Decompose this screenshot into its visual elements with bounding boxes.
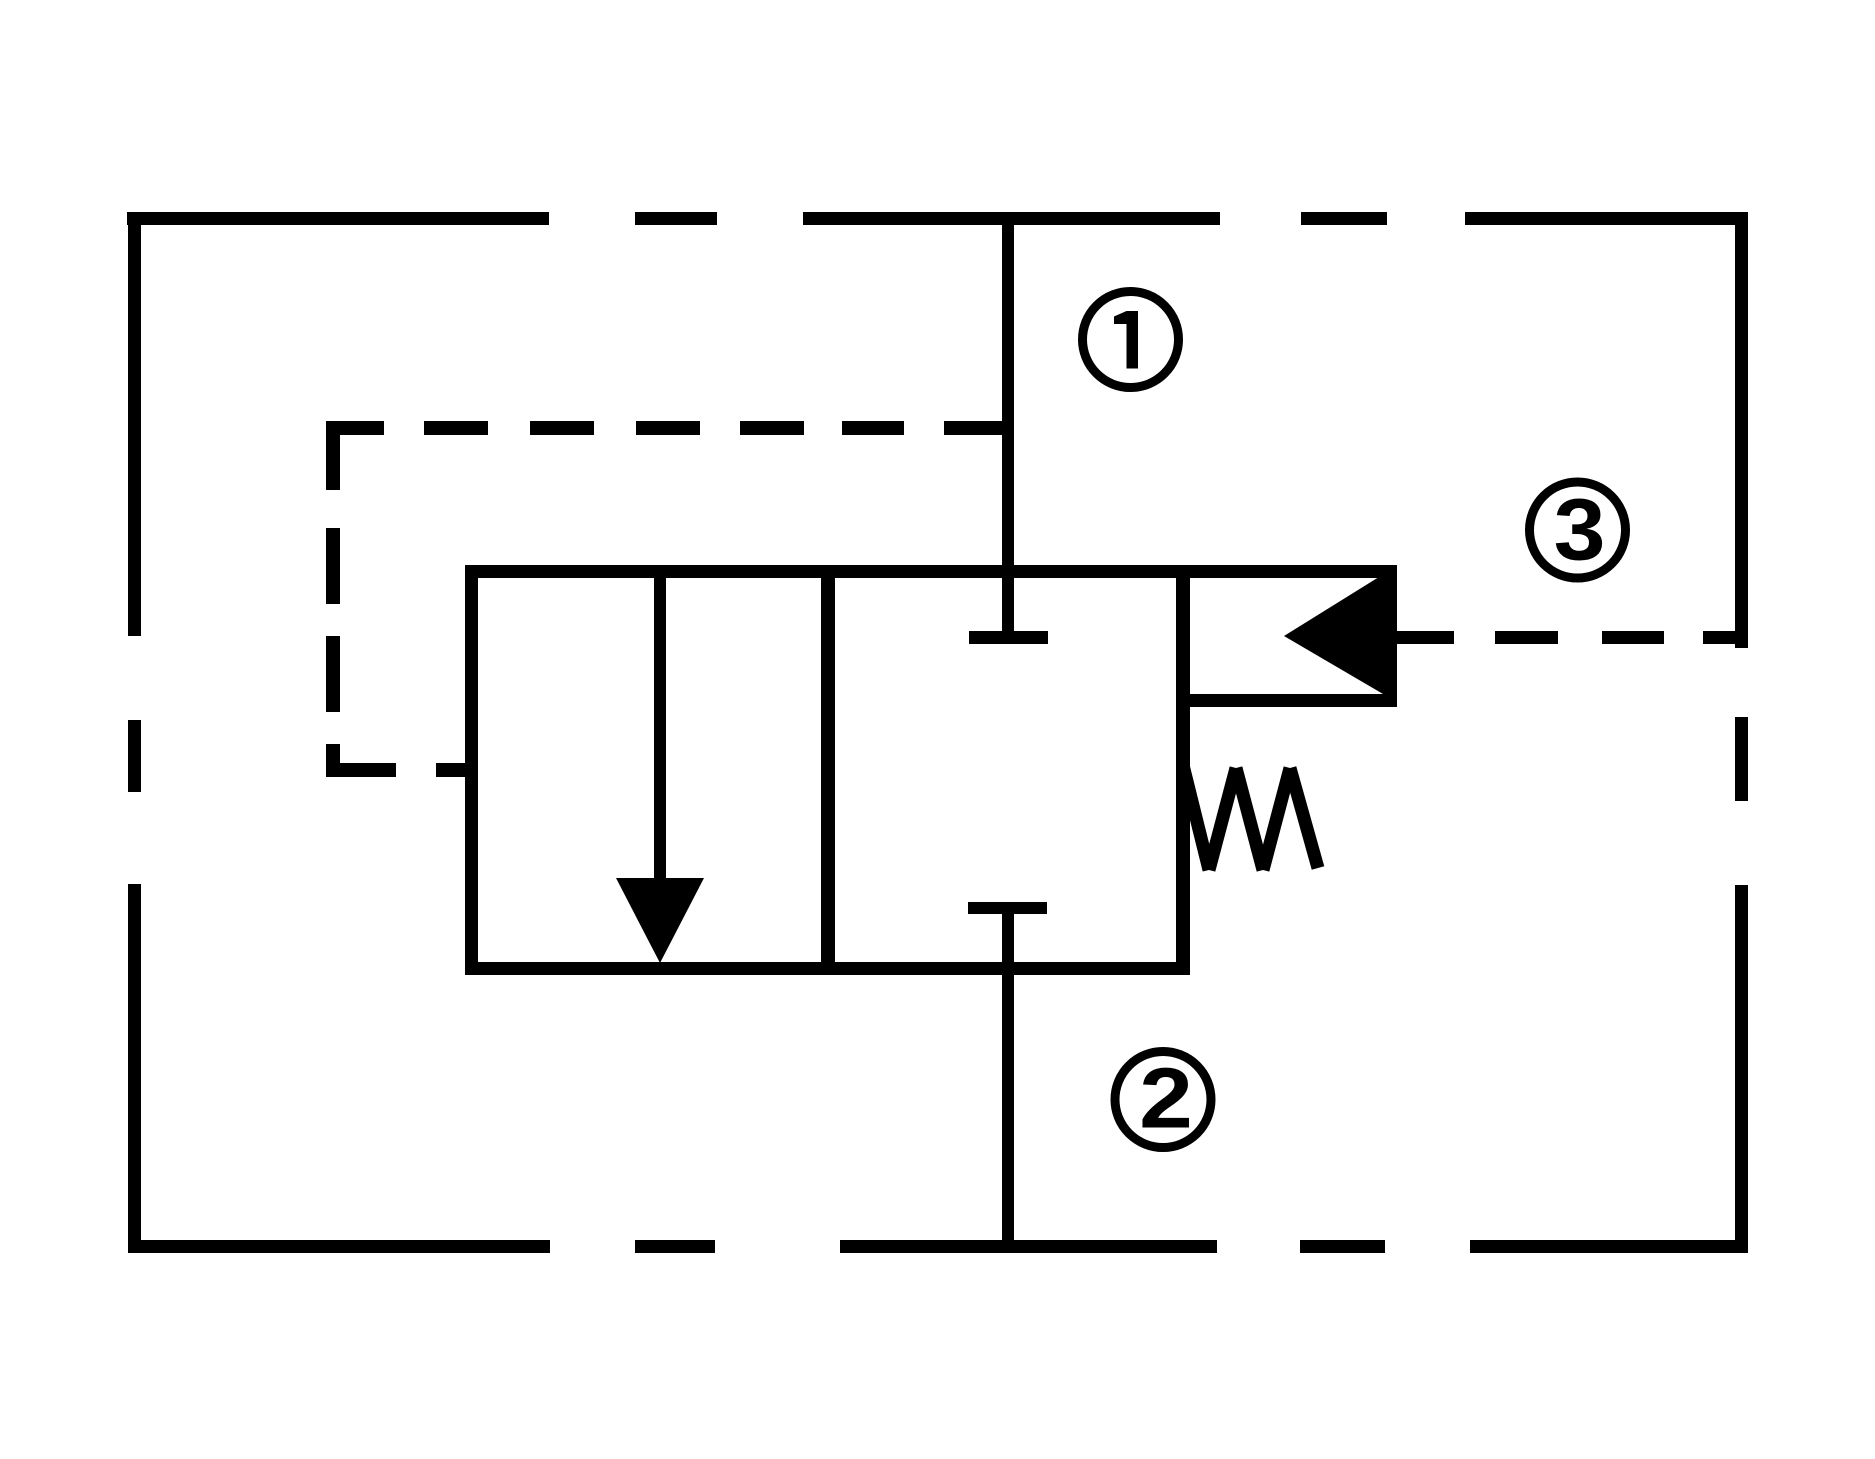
blocked port symbol at port 2 (T-bar) (968, 902, 1047, 914)
spring (zigzag) at valve right edge (1183, 765, 1318, 870)
internal pilot sense line bottom edge (dashed) to valve left edge (326, 763, 466, 777)
internal pilot sense line left edge (dashed) (326, 421, 340, 777)
valve envelope top edge (shared with pilot actuator box) (465, 565, 1397, 578)
valve envelope bottom edge (465, 962, 1190, 975)
wire: port 1 vertical line from top border to valve (1002, 218, 1014, 631)
node 1 label circle (1083, 292, 1179, 388)
node 3 label circle (1530, 482, 1626, 578)
valve envelope right edge (1176, 565, 1190, 975)
internal pilot sense line top edge (dashed) from inner loop to port 1 line (326, 421, 1002, 435)
cartridge envelope right edge (long-dash border) (1735, 212, 1748, 1253)
flow path arrow stem (left section) (654, 578, 666, 885)
pilot actuator box right edge (1384, 565, 1397, 707)
pilot line from port 3 (dashed) to pilot actuator (1397, 631, 1742, 644)
valve envelope left edge (465, 565, 478, 975)
svg-text:3: 3 (1554, 481, 1606, 578)
node 2 label circle (1115, 1052, 1211, 1148)
cartridge envelope left edge (long-dash border) (128, 212, 141, 1253)
pilot actuator box bottom edge (1190, 694, 1397, 707)
node 1 label digit (1114, 311, 1138, 369)
blocked port symbol at port 1 (T-bar) (969, 631, 1048, 644)
flow path arrowhead (616, 878, 704, 963)
cartridge envelope bottom edge (long-dash border) (128, 1240, 1748, 1253)
cartridge envelope top edge (long-dash border) (127, 212, 1748, 225)
svg-text:2: 2 (1139, 1051, 1193, 1147)
valve section divider (821, 565, 835, 975)
pilot actuator arrow triangle (1284, 567, 1395, 701)
wire: port 2 vertical line from valve to bottom border (1002, 914, 1014, 1253)
